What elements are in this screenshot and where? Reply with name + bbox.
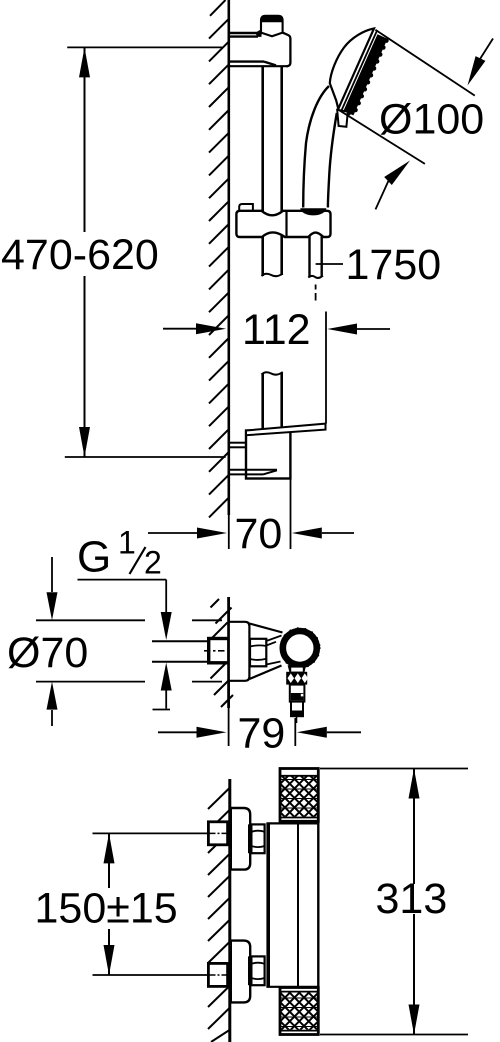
top bracket knob black cap	[261, 16, 283, 22]
hose break wave	[308, 276, 323, 278]
glide holder top tab	[239, 204, 253, 211]
svg-text:Ø100: Ø100	[379, 96, 484, 144]
wall hatch ticks (fig2)	[211, 599, 234, 707]
dimension 112	[163, 328, 197, 330]
svg-text:112: 112	[242, 306, 311, 354]
svg-text:1: 1	[118, 525, 136, 561]
shower head face line 2	[341, 30, 377, 111]
dimension 470-620	[65, 47, 226, 457]
handle left edge	[303, 86, 329, 208]
valve circle ring	[283, 631, 317, 665]
rail upper segment	[263, 66, 282, 213]
glide holder inner line	[285, 211, 287, 237]
rail break wave (lower)	[262, 372, 283, 375]
bottom supply stub	[208, 963, 227, 986]
svg-text:79: 79	[238, 710, 286, 758]
svg-text:150±15: 150±15	[35, 885, 178, 933]
bottom hex nut dark strip	[248, 956, 252, 985]
rail break wave (upper)	[262, 274, 283, 277]
shower head black spray band	[348, 37, 382, 114]
top knob	[280, 769, 318, 822]
wall hatching (fig3)	[208, 788, 230, 1042]
hose below holder	[310, 236, 322, 278]
escutcheon (fig2)	[229, 622, 250, 681]
wall nut centerline	[204, 650, 225, 652]
top bracket neck bars	[230, 33, 276, 65]
wall line (fig2)	[227, 597, 230, 708]
top hex nut dark strip	[248, 824, 252, 853]
top bracket knob	[261, 16, 283, 37]
top bracket knob dark base wedge	[256, 29, 262, 37]
rail mid segment below holder	[263, 235, 282, 276]
glide holder body	[236, 211, 330, 237]
bottom flange	[231, 941, 250, 1003]
svg-text:313: 313	[376, 875, 448, 923]
svg-text:2: 2	[144, 545, 162, 581]
handle right edge	[328, 113, 337, 208]
check valve cylinder	[290, 685, 305, 702]
wall line (fig1)	[228, 0, 231, 515]
supply pipe (fig2)	[152, 641, 209, 662]
dimension 70	[148, 532, 197, 534]
dimension Ø100	[338, 30, 493, 210]
svg-text:1750: 1750	[346, 241, 442, 289]
svg-text:G: G	[77, 533, 111, 582]
hose dash-dot continuation	[315, 285, 317, 301]
glide holder cup shadow	[300, 208, 326, 215]
bottom bracket arm	[246, 424, 326, 436]
bell outline to circle	[249, 624, 282, 633]
rail lower segment	[263, 373, 282, 430]
body column	[266, 823, 270, 986]
top hex nut	[251, 824, 264, 853]
svg-text:70: 70	[235, 510, 283, 558]
Ø70 dimension	[36, 557, 222, 726]
bottom knob	[280, 988, 318, 1035]
knurled ring	[286, 672, 307, 685]
shower head bottom cap	[341, 110, 354, 115]
shower head body lens	[330, 29, 374, 109]
wall hatching (fig1)	[209, 0, 229, 517]
dimension 79	[158, 731, 197, 733]
bottom bracket neck bars bottom	[230, 470, 277, 475]
wall nut (fig2)	[209, 639, 229, 663]
bottom bracket body	[246, 431, 290, 479]
dimension 313	[320, 769, 468, 1035]
wall line (fig3)	[228, 779, 231, 1042]
hex nut (fig2)	[250, 639, 266, 667]
top supply stub	[208, 822, 227, 845]
wall extension line down to 70-dim (fig1)	[228, 515, 230, 549]
cone to circle	[266, 636, 281, 665]
shower head clip tab	[337, 110, 348, 127]
spray band scallop bumps	[353, 38, 389, 112]
neck below circle	[288, 665, 307, 672]
svg-text:Ø70: Ø70	[7, 629, 88, 677]
bottom hex nut	[251, 956, 264, 985]
bottom bracket neck bars top	[230, 443, 246, 448]
valve circle knurl bumps	[284, 627, 321, 669]
dimension 1750 leader	[316, 263, 343, 265]
dimension 150±15	[93, 833, 208, 975]
top flange	[231, 808, 250, 870]
top bracket body right edge	[283, 33, 291, 67]
G 1/2 leader and arrows	[78, 579, 167, 581]
outlet tube	[291, 702, 303, 717]
svg-text:470-620: 470-620	[1, 231, 159, 279]
